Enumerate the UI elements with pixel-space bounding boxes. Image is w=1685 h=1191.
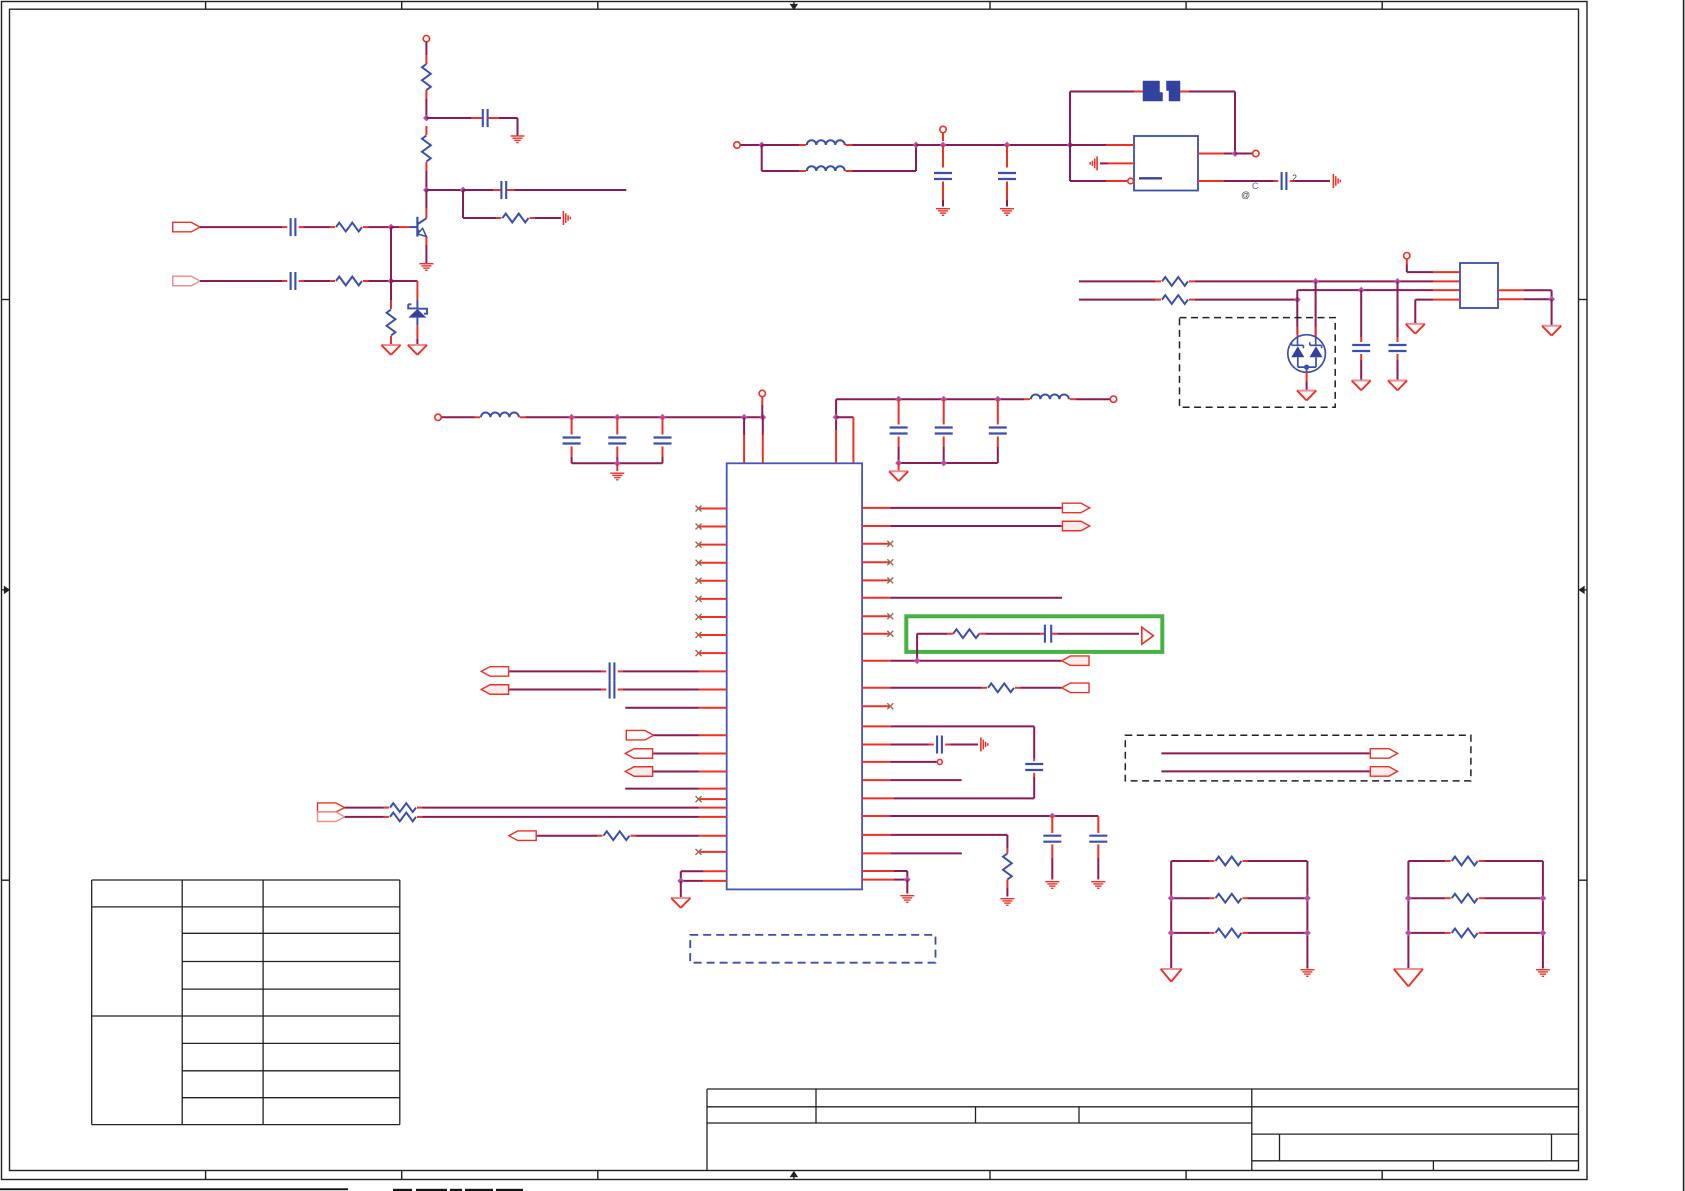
svg-text:2: 2	[1292, 173, 1297, 183]
svg-text:C: C	[1252, 181, 1259, 191]
svg-text:@: @	[1241, 190, 1250, 200]
